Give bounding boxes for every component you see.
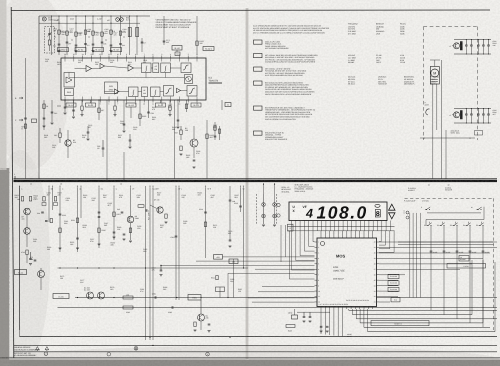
capacitor C96 <box>309 315 312 317</box>
capacitor C93 <box>469 250 472 252</box>
electrolytic C60 <box>460 42 462 51</box>
keyboard dashed box <box>405 198 494 330</box>
capacitor C90 <box>430 250 433 252</box>
wire <box>90 100 92 103</box>
wire <box>98 100 100 120</box>
wire <box>141 38 143 52</box>
wire <box>130 187 132 216</box>
AM top bus junction dots <box>51 15 52 16</box>
capacitor C36 <box>147 111 150 113</box>
wire <box>348 309 350 310</box>
resistor R63 <box>54 197 56 202</box>
bottom scan edge strip <box>0 360 500 366</box>
capacitor C72 <box>34 259 37 261</box>
wire <box>51 16 53 55</box>
horizontal section divider <box>14 178 498 180</box>
resistor R107 <box>119 31 121 35</box>
dial lamp <box>273 203 277 207</box>
components on AGC wire <box>24 117 27 119</box>
display small 8 box <box>375 210 380 218</box>
wire <box>98 187 100 248</box>
capacitor C50 <box>193 159 196 161</box>
filter block SL-A2 <box>93 48 104 52</box>
resistor R38 <box>185 104 187 109</box>
components x99 <box>98 211 101 213</box>
STAB box <box>371 321 429 326</box>
page border top <box>11 9 490 12</box>
wire <box>363 309 365 327</box>
footer circled mark 2 <box>44 352 48 356</box>
full width bus line 2 <box>14 345 498 347</box>
keyboard verticals to bus <box>430 258 432 310</box>
small box on AGC wire <box>32 119 37 123</box>
bottom row block 1 <box>129 87 139 97</box>
wire <box>73 100 75 116</box>
wire <box>243 256 245 268</box>
capacitor C99 <box>326 325 329 327</box>
full width bus line 3 <box>14 351 498 353</box>
resistor network boxes right of CPU <box>388 274 399 278</box>
output block right <box>187 86 197 97</box>
wire <box>352 309 354 315</box>
trimmer capacitor C1 <box>48 33 51 35</box>
full width bus line 1 <box>20 336 498 338</box>
keyboard zone crossing wires <box>398 241 494 243</box>
dial lamp <box>273 214 277 218</box>
motor top wire <box>434 60 436 67</box>
capacitor C41 <box>43 117 46 119</box>
page border left <box>11 7 14 358</box>
RF amp triangle <box>86 65 92 71</box>
capacitor C68 <box>482 109 484 115</box>
connector circles left of display <box>277 203 280 206</box>
wire verticals right of audio <box>219 287 221 298</box>
wire <box>58 16 60 55</box>
left margin components <box>43 100 45 130</box>
bus end risers <box>471 260 473 315</box>
wire <box>177 100 179 126</box>
resistor R106 <box>110 30 112 34</box>
audio transistor T16 <box>198 314 205 321</box>
wire <box>139 100 141 126</box>
cross-fold wire 1 <box>223 256 315 258</box>
cluster bottom rails <box>454 108 491 110</box>
resistor R61 <box>29 197 31 202</box>
oscillator varicap D2 <box>120 18 124 22</box>
ADJ block <box>65 89 74 96</box>
crystal Y1 <box>292 315 298 319</box>
capacitor C31 <box>64 106 67 108</box>
legend checkbox 3 <box>254 67 263 71</box>
wire right edge <box>221 100 223 110</box>
cross wire <box>420 137 475 139</box>
keyboard left verticals <box>409 213 411 298</box>
resistor R103 <box>84 30 86 34</box>
filter block SL-A2 b <box>172 46 182 51</box>
wire <box>152 187 154 340</box>
capacitor C78 <box>171 306 173 309</box>
capacitor C92 <box>456 250 459 252</box>
wire <box>59 187 61 252</box>
footer triangle 2 <box>45 347 49 351</box>
CPU bottom components <box>297 311 330 313</box>
box R77 <box>188 295 201 301</box>
footer circled mark 3 <box>107 352 111 356</box>
wire <box>110 16 112 55</box>
capacitor C98 <box>320 325 323 327</box>
wire <box>123 100 125 130</box>
resistor R105 <box>101 32 103 36</box>
push switch P5 <box>479 225 481 227</box>
mid horizontal wire 1 <box>58 267 249 269</box>
box LS RANGE <box>459 256 469 262</box>
AM section frame <box>39 15 150 17</box>
IF chain components x77 <box>76 218 78 223</box>
IC internal bottom stubs <box>64 97 66 101</box>
IF transformer L6 <box>136 28 139 37</box>
legend checkbox 1 <box>254 40 263 44</box>
filter block Z-VOL-1 <box>58 48 69 52</box>
mixer block <box>105 82 118 94</box>
wire <box>148 100 150 118</box>
stepped wire <box>247 297 249 299</box>
wire <box>85 16 87 55</box>
integrator block 2 top <box>161 63 171 73</box>
legend checkbox 6 <box>254 131 263 135</box>
wire <box>52 187 54 210</box>
footer triangle 1 <box>36 347 40 351</box>
wire <box>75 16 77 55</box>
wire <box>186 100 188 112</box>
wire <box>205 187 207 258</box>
capacitor C34 <box>123 123 126 125</box>
CPU pins top <box>320 236 322 239</box>
motor M1 <box>430 67 439 85</box>
resistor R100 <box>58 30 60 34</box>
resistor R51 <box>206 134 208 139</box>
motor unit dashed box <box>424 27 478 141</box>
extra group right column <box>214 122 216 140</box>
left scan edge strip <box>0 168 9 366</box>
footer circled triangle mark <box>134 346 138 350</box>
display connector strip <box>288 226 395 228</box>
capacitor C65 <box>488 40 490 46</box>
capacitor C46 <box>102 147 105 149</box>
capacitor C102 <box>92 43 95 45</box>
curl symbol <box>426 109 430 115</box>
antenna symbol X1 <box>42 17 46 21</box>
IF transformer L5 <box>128 28 131 37</box>
resistor R21 <box>196 41 198 46</box>
filter block SL-A2 <box>75 48 86 52</box>
audio transistor T15 <box>98 292 105 299</box>
mid sparse x240 <box>239 205 242 207</box>
transistor T17 <box>157 207 163 213</box>
capacitor C66 <box>470 109 472 115</box>
tune up triangle <box>389 204 395 210</box>
capacitor C62 <box>470 40 472 46</box>
connector to CPU left nest wires <box>295 231 297 261</box>
mid horizontal wire 2 <box>75 297 497 299</box>
wire <box>355 309 357 319</box>
capacitor C101 <box>75 44 78 46</box>
keyboard row1 switch S2 <box>477 209 479 211</box>
cross-fold wire 5 <box>228 272 315 274</box>
wire <box>106 145 108 179</box>
keyboard long box <box>447 264 486 269</box>
diode D43 <box>57 105 61 107</box>
resistor R33 <box>98 108 100 113</box>
resistor R102 <box>75 32 77 36</box>
filter block SL-B1 <box>86 103 96 107</box>
LCD display module outline <box>289 202 387 221</box>
filter block SL-B0 <box>66 103 76 107</box>
wire <box>64 100 66 112</box>
long vertical pair mid <box>145 186 147 340</box>
detector circle block <box>185 75 193 84</box>
capacitor C61 <box>465 40 467 46</box>
wire <box>175 187 177 300</box>
wire <box>48 187 50 222</box>
resistor R74 <box>123 296 133 299</box>
IF chain components x60 <box>59 213 62 215</box>
wire <box>101 16 103 55</box>
resistor <box>81 106 83 110</box>
footer circled mark 4 <box>206 352 210 356</box>
motor wires down <box>432 84 434 179</box>
wire <box>80 187 82 218</box>
capacitor C64 <box>482 40 484 46</box>
CPU U10 outline <box>317 238 377 307</box>
resistor R60 <box>21 197 23 202</box>
filter block SL-B3 <box>156 103 166 107</box>
capacitor C9 <box>163 40 166 42</box>
resistor <box>114 106 116 110</box>
capacitor C37 <box>177 119 180 121</box>
bottom row block 2 <box>142 87 148 97</box>
capacitor C95 <box>303 315 306 317</box>
resistor R79 <box>194 322 196 327</box>
CPU right pin wires <box>379 241 497 243</box>
resistor R66 <box>26 250 28 255</box>
capacitor C302 on wire 3 <box>160 266 162 271</box>
connector box left <box>288 224 294 231</box>
leftmost display wires going down <box>288 231 290 279</box>
dial lamp <box>262 203 266 207</box>
wire <box>130 107 132 118</box>
wire <box>123 152 125 179</box>
filter block SL-B4 <box>191 103 201 107</box>
wire <box>367 309 369 332</box>
wire <box>240 187 242 212</box>
push switch P2 <box>440 225 442 227</box>
components under T12 <box>129 228 131 233</box>
capacitor C67 <box>29 258 32 260</box>
fold shadow center <box>246 8 249 360</box>
resistor R49 <box>180 146 182 151</box>
transistor T12 <box>127 216 134 223</box>
wire <box>206 120 208 179</box>
IC internal top stubs <box>64 58 66 62</box>
internal wire bottom <box>105 91 115 93</box>
extra group right column 2 <box>219 126 221 140</box>
capacitor C69 <box>488 109 490 115</box>
transistor T10 <box>24 208 31 215</box>
wire <box>243 187 245 256</box>
wire <box>163 16 165 45</box>
wire <box>129 16 131 55</box>
buffer triangle <box>100 64 105 69</box>
capacitor C67 <box>477 109 479 115</box>
display symbol CD <box>375 204 380 207</box>
cross-fold wire 3 <box>161 265 315 267</box>
long vertical below IC <box>174 100 176 179</box>
CPU left pin wires <box>262 285 315 287</box>
transistor T2 buffer <box>190 139 198 147</box>
component on wire 5 <box>216 276 218 280</box>
capacitor C80 <box>208 323 211 325</box>
capacitor C63 <box>477 40 479 46</box>
capacitor C70 <box>121 211 124 213</box>
legend checkbox 2 <box>254 54 263 58</box>
capacitor C100 <box>58 43 61 45</box>
small box x220 <box>216 287 225 292</box>
cluster top rails <box>454 39 491 41</box>
bottom row amp triangle pre <box>115 89 120 94</box>
mid horizontal wire 3 <box>58 307 498 309</box>
IC pin ticks top <box>64 56 66 59</box>
components left of T17 <box>138 205 144 208</box>
RC cluster bottom transistor T32 <box>454 112 460 118</box>
capacitor C64 <box>41 211 44 213</box>
CPU pins bottom <box>320 307 322 310</box>
resistor R75 <box>123 306 133 309</box>
small box on wire 1 <box>214 255 223 260</box>
wire <box>160 100 162 103</box>
extra group 8 caps near osc <box>87 131 90 133</box>
wire <box>178 187 180 300</box>
resistor box PL4 <box>391 298 400 302</box>
resistor R40 <box>43 104 45 109</box>
wire <box>66 16 68 55</box>
limiter block top <box>181 63 191 73</box>
bus left drops <box>320 309 322 334</box>
box T-filter <box>53 294 69 299</box>
extra wire stubs below IC <box>81 100 83 106</box>
capacitor C42 <box>51 111 54 113</box>
capacitor C65b <box>45 220 48 222</box>
components x114 <box>113 212 115 217</box>
extra caps AM box <box>66 41 69 43</box>
wire <box>120 16 122 55</box>
capacitor C91 <box>443 250 446 252</box>
mid sparse components x205 <box>204 211 207 213</box>
capacitor C65 <box>465 109 467 115</box>
wire <box>233 259 235 298</box>
connector right nest wires <box>380 231 382 242</box>
RC cluster top transistor T31 <box>454 43 460 49</box>
resistor R104 <box>92 31 94 35</box>
mid sparse components x176 <box>175 235 178 237</box>
resistor R68 <box>59 228 61 233</box>
wire <box>149 187 151 340</box>
display pin stubs <box>291 221 293 227</box>
box MC31 <box>15 270 27 275</box>
connector to CPU top wires <box>320 231 322 236</box>
wire <box>19 187 21 268</box>
internal feedback stubs <box>145 73 147 78</box>
audio transistor T14 <box>87 292 94 299</box>
full width bus line 4 <box>0 357 500 359</box>
ground <box>98 243 101 245</box>
bottom row block 3 <box>151 87 161 97</box>
cross-fold wire 4 <box>255 268 315 270</box>
oscillator varicap D1 <box>116 18 120 22</box>
wire <box>19 268 21 337</box>
junction dots <box>59 267 60 268</box>
resistor R101 <box>66 31 68 35</box>
dial lamp dashed box <box>257 194 277 224</box>
right area capacitor column <box>229 186 231 200</box>
resistor <box>169 106 171 110</box>
lamp feed wires from divider <box>263 183 265 194</box>
left AGC wire top half <box>25 58 27 179</box>
CPU index circle <box>321 242 325 246</box>
small circled contacts <box>406 211 409 214</box>
wire <box>106 100 108 145</box>
AM box top bus <box>39 22 140 24</box>
integrator block 1 top <box>142 63 152 73</box>
electrolytic C65 <box>460 111 462 120</box>
antenna input filter dashed box <box>45 27 55 54</box>
extra AM box density <box>55 37 56 38</box>
capacitor C103 <box>110 44 113 46</box>
coil L1 <box>48 40 50 45</box>
box B5 <box>225 103 231 107</box>
resistor R48 <box>180 130 182 135</box>
internal wire top <box>75 68 87 70</box>
legend checkbox 5 <box>254 106 263 110</box>
wire <box>359 309 361 323</box>
keyboard row1 switch S1 <box>425 209 427 211</box>
CPU pins right <box>377 241 380 243</box>
capacitor C7 <box>141 41 144 43</box>
tune down triangle <box>389 213 395 219</box>
small box <box>175 52 180 56</box>
delta block top <box>153 63 159 73</box>
CPU pins left <box>315 241 318 243</box>
buffer triangle 2 <box>177 88 181 92</box>
resistor R62 <box>43 197 45 202</box>
resistor R45 <box>59 133 61 138</box>
filter block SL-A2 <box>111 48 122 52</box>
left margin tick <box>14 176 16 180</box>
keyboard row2 top rail <box>426 219 484 221</box>
capacitor C32 <box>72 109 75 111</box>
audio transistor T13 <box>38 271 45 278</box>
cross-fold wire 2 <box>196 260 315 262</box>
third amp triangle top row <box>128 65 134 71</box>
wire <box>136 16 138 55</box>
AGC block <box>64 73 75 88</box>
ground <box>51 122 54 124</box>
transistor T1 oscillator <box>65 140 71 146</box>
display left wires <box>280 225 282 262</box>
legend checkbox 4 <box>254 81 263 85</box>
filter block SL-A2 c <box>203 47 214 51</box>
small box x233 <box>229 259 238 264</box>
capacitor C76 <box>154 296 156 299</box>
